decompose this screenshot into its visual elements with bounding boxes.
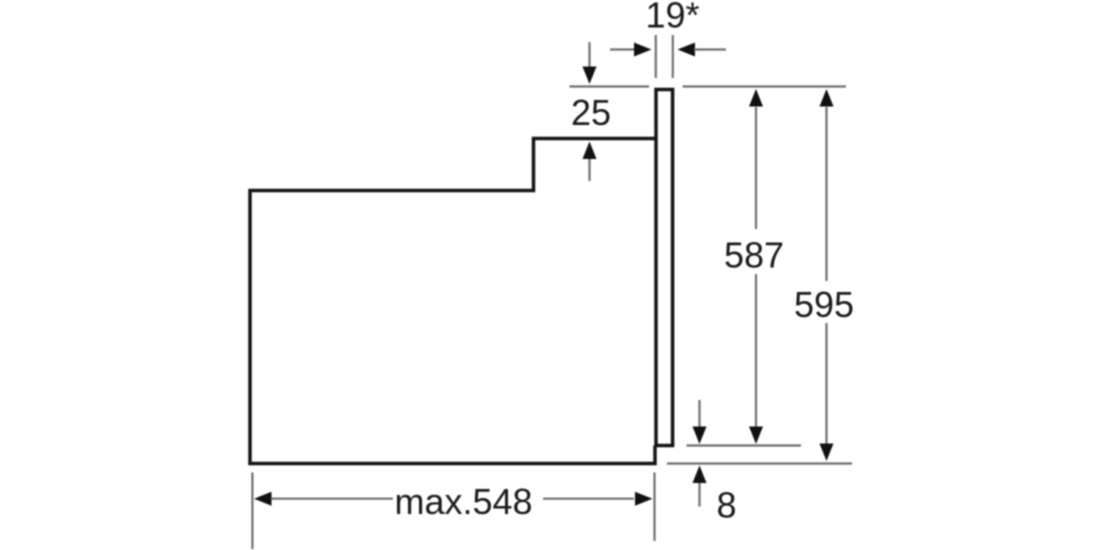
svg-text:max.548: max.548 xyxy=(394,481,532,522)
svg-text:19*: 19* xyxy=(645,0,699,35)
dimension 25 upper arrow line xyxy=(588,42,590,67)
extension line vertical right (19 dim) xyxy=(672,35,674,78)
extension line 587 bottom xyxy=(687,444,802,446)
dimension line 595 upper xyxy=(825,107,827,281)
dimension line max548 left segment xyxy=(271,498,393,500)
arrowhead 595 down xyxy=(820,444,834,462)
dimension line max548 right segment xyxy=(543,498,634,500)
dimension line 587 lower xyxy=(755,274,757,427)
arrowhead 8 down xyxy=(693,427,707,445)
arrowhead 25 up xyxy=(583,142,597,160)
svg-text:595: 595 xyxy=(794,284,854,325)
extension line vertical left (19 dim) xyxy=(655,35,657,78)
arrowhead max548 left-pointing xyxy=(254,492,272,506)
dimension line 587 upper xyxy=(755,107,757,229)
arrowhead max548 right-pointing xyxy=(635,492,653,506)
svg-text:25: 25 xyxy=(571,92,611,133)
dimension line 19 left segment xyxy=(610,48,635,50)
arrowhead 25 down xyxy=(583,67,597,85)
extension line max548 left xyxy=(251,473,253,550)
front panel xyxy=(656,90,673,446)
dimension line 595 lower xyxy=(825,323,827,444)
oven body outline xyxy=(250,139,655,464)
arrowhead 595 up xyxy=(820,89,834,107)
extension line 595 bottom xyxy=(667,462,852,464)
dimension 8 upper arrow line xyxy=(698,400,700,427)
dimension 8 lower arrow line xyxy=(698,483,700,507)
dimension 25 lower arrow line xyxy=(588,159,590,181)
extension line horizontal top-left xyxy=(570,85,650,87)
arrowhead 8 up xyxy=(693,466,707,484)
arrowhead 587 down xyxy=(749,427,763,445)
extension line max548 right xyxy=(653,473,655,542)
arrowhead 587 up xyxy=(749,89,763,107)
arrowhead 19 left-pointing xyxy=(678,43,696,57)
svg-text:8: 8 xyxy=(716,485,736,526)
svg-text:587: 587 xyxy=(724,235,784,276)
dimension line 19 right segment xyxy=(694,48,726,50)
arrowhead 19 right-pointing xyxy=(634,43,652,57)
extension line horizontal top-right xyxy=(683,85,847,87)
